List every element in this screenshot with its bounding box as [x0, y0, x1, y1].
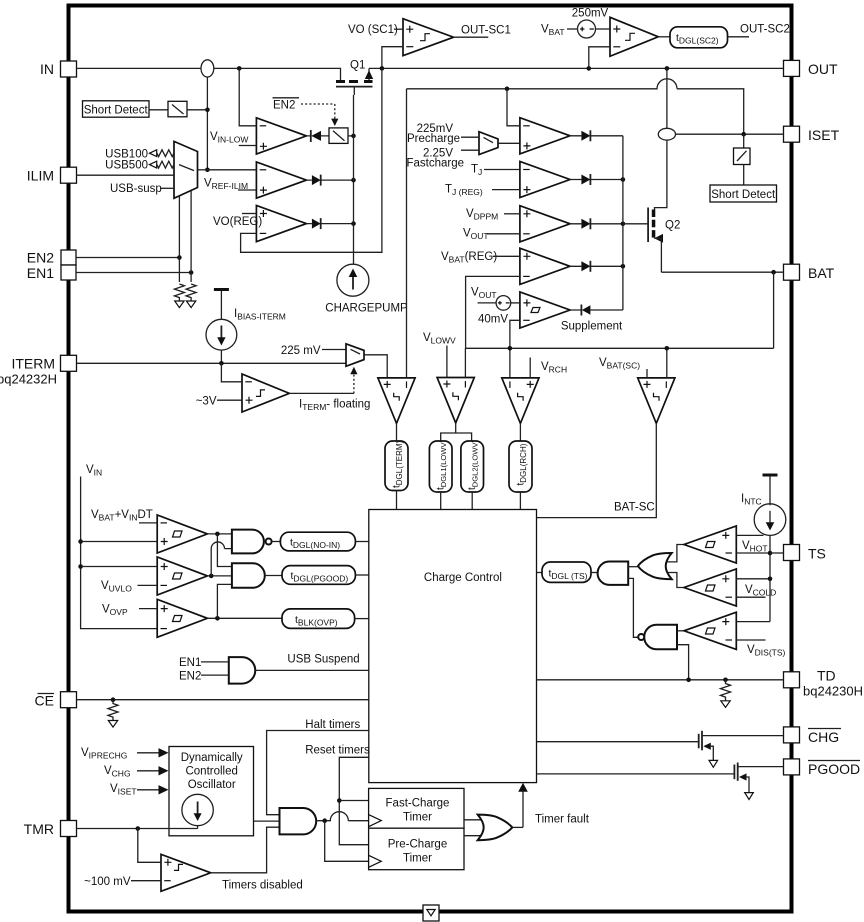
- comparator U16 (VBAT+VINDT): [157, 515, 207, 553]
- wire U16 output: [207, 533, 232, 535]
- wire tDGL(TS) to AND4: [591, 572, 598, 574]
- svg-text:BAT-SC: BAT-SC: [614, 502, 655, 514]
- ground TD: [721, 701, 730, 708]
- svg-text:Q2: Q2: [665, 220, 680, 232]
- wire TMR: [77, 828, 198, 830]
- wire VDIS threshold stub: [736, 639, 765, 641]
- wire OUT rail (Q1 drain to OUT pin): [369, 67, 784, 69]
- svg-text:PGOOD: PGOOD: [808, 761, 860, 777]
- wire + input: [238, 189, 256, 191]
- wire CE to charge control: [77, 699, 369, 701]
- wire - feedback from BAT rail: [466, 276, 520, 348]
- gate AND4 (mirrored): [598, 562, 629, 585]
- node bus tap row2: [351, 178, 356, 183]
- svg-text:EN2: EN2: [179, 670, 201, 682]
- wire VIN rail: [81, 477, 158, 629]
- svg-text:250mV: 250mV: [572, 8, 609, 20]
- wire EN1 control vertical + pulldown resistor: [190, 191, 192, 282]
- wire VRCH stub: [529, 358, 531, 378]
- comparator U11 (~3V ITERM floating): [242, 374, 289, 412]
- wire BAT node down to BAT rail: [773, 272, 775, 348]
- wire VO(REG) feedback from OUT node: [241, 68, 382, 252]
- wire VCOLD threshold stub: [736, 596, 765, 598]
- svg-text:Halt timers: Halt timers: [305, 719, 360, 731]
- gate OR1 (timer fault): [478, 815, 513, 841]
- comparator U8 (VDPPM): [520, 206, 570, 242]
- svg-text:Short Detect: Short Detect: [84, 105, 149, 117]
- svg-text:Controlled: Controlled: [185, 766, 237, 778]
- block tDGL(NO-IN): [280, 532, 355, 551]
- svg-text:Precharge: Precharge: [407, 133, 460, 145]
- wire VO(SC1) output OUT-SC1: [454, 36, 489, 38]
- block Short Detect (ISET side): [710, 185, 777, 202]
- comparator U17 (VUVLO): [157, 557, 207, 595]
- wire output to deglitch: [658, 36, 670, 38]
- ground CHG: [709, 760, 718, 767]
- node BAT tap: [771, 270, 776, 275]
- diode D3: [306, 223, 353, 225]
- pin ISET: [784, 126, 840, 143]
- block tDGL1(LOWV): [429, 441, 452, 492]
- wire + input to TS node: [736, 621, 770, 623]
- node IN-sense junction for VIN-LOW tap: [237, 66, 242, 71]
- wire - input from BAT rail: [464, 348, 466, 377]
- wire mux output to TERM comparator: [364, 355, 387, 378]
- svg-text:USB-susp: USB-susp: [110, 183, 162, 195]
- svg-text:Dynamically: Dynamically: [181, 752, 243, 764]
- gate AND2 (USB suspend): [229, 657, 255, 684]
- transistor Q1: [336, 60, 373, 96]
- node diode bus row4: [621, 264, 626, 269]
- gate OR2 (mirrored): [638, 553, 672, 579]
- source 40mV: [478, 302, 497, 304]
- current sense bubble ISET: [658, 128, 675, 140]
- svg-text:CE: CE: [35, 693, 54, 709]
- ground PGOOD: [745, 793, 754, 800]
- wire ISET bubble to ISET pin: [676, 133, 784, 135]
- node short-detect tap: [205, 108, 210, 113]
- block Dynamically Controlled Oscillator: [169, 747, 254, 836]
- wire BAT-SC output into charge control: [537, 423, 657, 517]
- transistor Q4 (PGOOD open drain): [537, 773, 735, 775]
- svg-text:Oscillator: Oscillator: [188, 779, 236, 791]
- block Charge Control: [369, 510, 537, 783]
- wire - input to BAT rail vertical: [510, 320, 520, 378]
- pin CHG (active low): [784, 727, 842, 745]
- svg-text:OUT-SC2: OUT-SC2: [740, 24, 790, 36]
- wire charge control to tDGL(TS): [537, 572, 543, 574]
- diode D8 (reversed): [570, 309, 623, 311]
- comparator U10 (Supplement): [520, 292, 570, 328]
- wire - input from mux output node: [207, 169, 256, 171]
- current source INTC: [754, 504, 786, 536]
- comparator U21 (VCOLD, left): [684, 569, 736, 606]
- mux USB current select: [174, 141, 198, 198]
- wire ITERM pin to mux: [77, 362, 347, 364]
- block tDGL2(LOWV): [461, 441, 484, 492]
- svg-text:ISET: ISET: [808, 127, 840, 143]
- comparator VIN-LOW U2: [256, 118, 306, 154]
- wire OUT rail down to ISET sense bubble: [666, 68, 668, 128]
- wire dotted EN2 to switch SW2: [301, 104, 335, 119]
- diode D4: [570, 135, 623, 137]
- comparator U15 (BAT-SC, down): [638, 378, 675, 424]
- pin TS: [784, 545, 826, 562]
- pin EN1: [27, 265, 76, 281]
- current sense bubble on IN line: [201, 60, 214, 77]
- pin TMR: [24, 821, 77, 838]
- wire - input feedback from OUT node: [382, 47, 403, 69]
- wire - input to TS node: [736, 552, 770, 554]
- wire VLOWV stub: [446, 346, 448, 378]
- wire bubble to Q1 source: [214, 68, 341, 80]
- svg-text:Reset timers: Reset timers: [305, 744, 370, 756]
- svg-text:Fast-Charge: Fast-Charge: [386, 798, 450, 810]
- mux ITERM select: [346, 344, 364, 367]
- current source in oscillator: [182, 794, 213, 825]
- block Short Detect (input side): [83, 101, 150, 117]
- wire - input from ISET rail: [406, 89, 408, 378]
- wire short detect to switch: [149, 109, 168, 111]
- comparator U20 (VHOT, left): [684, 526, 736, 563]
- block Fast-Charge Timer: [369, 788, 464, 828]
- block Pre-Charge Timer: [369, 828, 464, 870]
- pin OUT: [784, 60, 839, 77]
- node mux output: [205, 168, 210, 173]
- node bus tap row1: [351, 134, 356, 139]
- comparator U19 (~100mV timers disabled): [161, 854, 211, 891]
- pin VSS bottom: [423, 905, 439, 921]
- gate NAND2 (mirrored): [644, 625, 677, 649]
- wire - feedback from OUT rail: [589, 47, 610, 69]
- svg-text:USB500: USB500: [105, 160, 148, 172]
- wire switch to IN-sense vertical: [187, 109, 207, 111]
- svg-text:Timer: Timer: [403, 853, 432, 865]
- svg-text:ILIM: ILIM: [27, 168, 54, 184]
- svg-text:Short Detect: Short Detect: [711, 189, 776, 201]
- wire OR2 input1 from VHOT comp: [667, 545, 684, 562]
- wire EN2 control vertical + pulldown resistor: [178, 196, 180, 282]
- wire ISET feedback rail (TERM comp to ISET node, hops OUT/ISET vertical): [407, 79, 744, 134]
- wire + input under label: [239, 145, 257, 147]
- svg-text:USB100: USB100: [105, 148, 148, 160]
- wire OR2 input2 from VCOLD comp: [667, 573, 684, 588]
- svg-text:IN: IN: [40, 61, 54, 77]
- wire OUT-SC2: [728, 36, 750, 38]
- wire TERM output to deglitch: [396, 423, 398, 441]
- wire TD rail: [537, 679, 784, 681]
- wire - input from ISET rail: [507, 89, 520, 126]
- wire output + dotted control to mux: [289, 392, 354, 394]
- comparator VO(SC1) U1: [403, 19, 454, 56]
- wire - input from IN sense node: [239, 68, 256, 125]
- mux precharge/fastcharge: [479, 132, 498, 155]
- svg-text:Timers disabled: Timers disabled: [222, 879, 303, 891]
- svg-text:Supplement: Supplement: [561, 321, 623, 333]
- wire diode bus: [622, 136, 624, 310]
- comparator U6 (charge current): [520, 118, 570, 154]
- switch SW1: [168, 101, 187, 117]
- wire AND3 output to timers (hop over reset): [316, 812, 368, 821]
- node ISET short-detect tap: [741, 132, 746, 137]
- wire - input from ITERM rail: [221, 363, 242, 382]
- node BAT rail RCH tap: [508, 346, 513, 351]
- comparator U7 (TJ): [520, 161, 570, 197]
- comparator U12 (TERM, down): [378, 378, 415, 424]
- wire VHOT threshold stub: [736, 534, 763, 536]
- svg-text:EN1: EN1: [27, 265, 54, 281]
- wire mux output: [198, 169, 208, 171]
- block tDGL(SC2): [670, 27, 728, 48]
- resistor CE pulldown: [108, 700, 118, 721]
- svg-text:VO(REG): VO(REG): [213, 216, 262, 228]
- gate AND1 (PGOOD): [232, 563, 265, 588]
- wire Reset timers: [339, 757, 369, 844]
- node diode bus row2: [621, 177, 626, 182]
- wire U17 to NAND1 with hop: [211, 542, 232, 576]
- node diode bus row3: [621, 222, 626, 227]
- block tBLK(OVP): [282, 609, 355, 629]
- svg-text:VO (SC1): VO (SC1): [348, 24, 398, 36]
- wire EN2 to mux control: [76, 257, 179, 259]
- svg-text:USB Suspend: USB Suspend: [287, 653, 359, 665]
- comparator VREF-ILIM U3: [256, 162, 306, 198]
- svg-text:TS: TS: [808, 546, 826, 562]
- current source IBIAS-ITERM: [206, 319, 237, 350]
- node precharge-comp tap: [505, 87, 510, 92]
- comparator U22 (VDIS(TS), left): [684, 612, 736, 649]
- diode D6: [570, 223, 623, 225]
- svg-text:Fastcharge: Fastcharge: [406, 157, 464, 169]
- wire U18 output: [207, 617, 282, 619]
- svg-text:EN2: EN2: [27, 250, 54, 266]
- transistor Q3 (CHG open drain): [537, 741, 699, 743]
- svg-text:BAT: BAT: [808, 265, 835, 281]
- wire oscillator to AND3: [254, 820, 280, 822]
- block tDGL(TERM): [385, 441, 408, 491]
- pin IN: [40, 61, 77, 77]
- wire USB Suspend: [255, 669, 369, 671]
- svg-text:bq24232H: bq24232H: [0, 372, 57, 387]
- resistor TD pulldown: [721, 680, 731, 701]
- wire + input to TS node: [736, 578, 770, 580]
- comparator U9 (VBAT REG): [520, 248, 570, 284]
- wire AND4 input2 from NAND2: [628, 578, 638, 637]
- wire switch to charge-pump bus: [348, 135, 354, 137]
- wire ILIM pin to mux: [77, 174, 175, 176]
- rail terminal bias: [214, 288, 229, 291]
- block tDGL(PGOOD): [282, 566, 355, 585]
- svg-text:OUT: OUT: [808, 61, 838, 77]
- wire EN1 to mux control: [76, 272, 191, 274]
- node bus tap row3: [351, 221, 356, 226]
- pin BAT: [784, 264, 835, 281]
- gate NAND1: [232, 530, 264, 554]
- diode D2: [306, 179, 353, 181]
- svg-text:Timer: Timer: [403, 812, 432, 824]
- block tDGL(TS): [542, 562, 591, 582]
- svg-text:TMR: TMR: [24, 821, 54, 837]
- wire U19 output up to AND3: [211, 827, 280, 873]
- wire TS node vertical: [769, 535, 771, 621]
- wire Q2 drain to BAT pin: [661, 271, 783, 273]
- node OUT-DGL(SC2) tap: [587, 66, 592, 71]
- wire charge pump bus: [353, 95, 355, 264]
- svg-text:bq24230H: bq24230H: [803, 684, 863, 699]
- wire bus to Q2 gate: [623, 223, 648, 225]
- wire BAT rail: [465, 347, 773, 349]
- comparator VO(REG) U4: [256, 206, 306, 242]
- wire IN pin to current-sense bubble: [77, 67, 202, 69]
- wire vertical from bubble bottom to mux output node: [206, 77, 208, 170]
- wire NAND2 input2 from TD rail: [677, 645, 689, 680]
- wire Timer fault arrow into charge control: [512, 826, 523, 828]
- node BAT rail BAT-SC tap: [665, 346, 670, 351]
- svg-text:Charge Control: Charge Control: [424, 572, 502, 584]
- wire - input from BAT rail: [666, 348, 668, 378]
- svg-text:Q1: Q1: [350, 60, 365, 72]
- wire VBAT(SC) stub: [646, 369, 648, 378]
- svg-text:OUT-SC1: OUT-SC1: [461, 25, 511, 37]
- rail terminal INTC: [763, 474, 778, 477]
- wire RCH output to deglitch: [519, 423, 521, 441]
- wire TS node to TS pin: [770, 552, 784, 554]
- pin ILIM: [27, 167, 77, 183]
- svg-text:~3V: ~3V: [196, 396, 217, 408]
- wire AND4 input1 from OR2: [628, 566, 638, 568]
- comparator U18 (VOVP): [157, 599, 207, 637]
- current source CHARGEPUMP: [337, 264, 369, 296]
- svg-text:ITERM: ITERM: [11, 356, 55, 372]
- svg-text:Pre-Charge: Pre-Charge: [388, 839, 447, 851]
- svg-text:EN2: EN2: [273, 100, 295, 112]
- svg-text:CHARGEPUMP: CHARGEPUMP: [325, 303, 408, 315]
- comparator U14 (RCH, down): [502, 378, 539, 424]
- node OUT-ISET tap: [665, 66, 670, 71]
- pin PGOOD (active low): [784, 759, 861, 777]
- svg-text:225 mV: 225 mV: [281, 345, 321, 357]
- svg-text:CHG: CHG: [808, 729, 839, 745]
- svg-text:~100 mV: ~100 mV: [84, 876, 131, 888]
- source VBAT+250mV: [578, 20, 596, 38]
- switch SW3: [743, 134, 745, 148]
- node ITERM junction: [219, 361, 224, 366]
- svg-text:EN1: EN1: [179, 657, 201, 669]
- pin EN2: [27, 250, 76, 266]
- pin CE (active low): [35, 692, 77, 709]
- comparator U13 (LOWV, down): [437, 378, 474, 424]
- node OUT-VO(SC1)/VO(REG) tap: [380, 66, 385, 71]
- svg-text:Timer fault: Timer fault: [535, 813, 590, 825]
- wire U17 output: [207, 575, 232, 577]
- wire source to ITERM rail: [220, 350, 222, 363]
- wire NAND2 input1 from VDIS comp: [677, 630, 684, 632]
- wire label to + input: [394, 28, 403, 30]
- gate AND3 (timer clock enable): [280, 808, 317, 834]
- svg-text:TD: TD: [817, 668, 836, 684]
- pin TD: [784, 668, 864, 699]
- pin ITERM: [0, 355, 77, 386]
- comparator U5 (OUT-SC2): [610, 17, 658, 56]
- diode D1 (reversed): [306, 135, 329, 137]
- transistor Q2: [648, 140, 680, 272]
- switch SW2: [329, 128, 348, 143]
- wire timer outputs to OR1: [464, 820, 484, 836]
- block tDGL(RCH): [509, 441, 532, 492]
- diode D7: [570, 265, 623, 267]
- diode D5: [570, 179, 623, 181]
- wire + input from TMR: [138, 829, 161, 863]
- svg-text:40mV: 40mV: [478, 314, 508, 326]
- wire Halt timers: [267, 731, 369, 815]
- wire mux to + input: [498, 142, 520, 144]
- wire LOWV output split to deglitch pair: [441, 423, 472, 441]
